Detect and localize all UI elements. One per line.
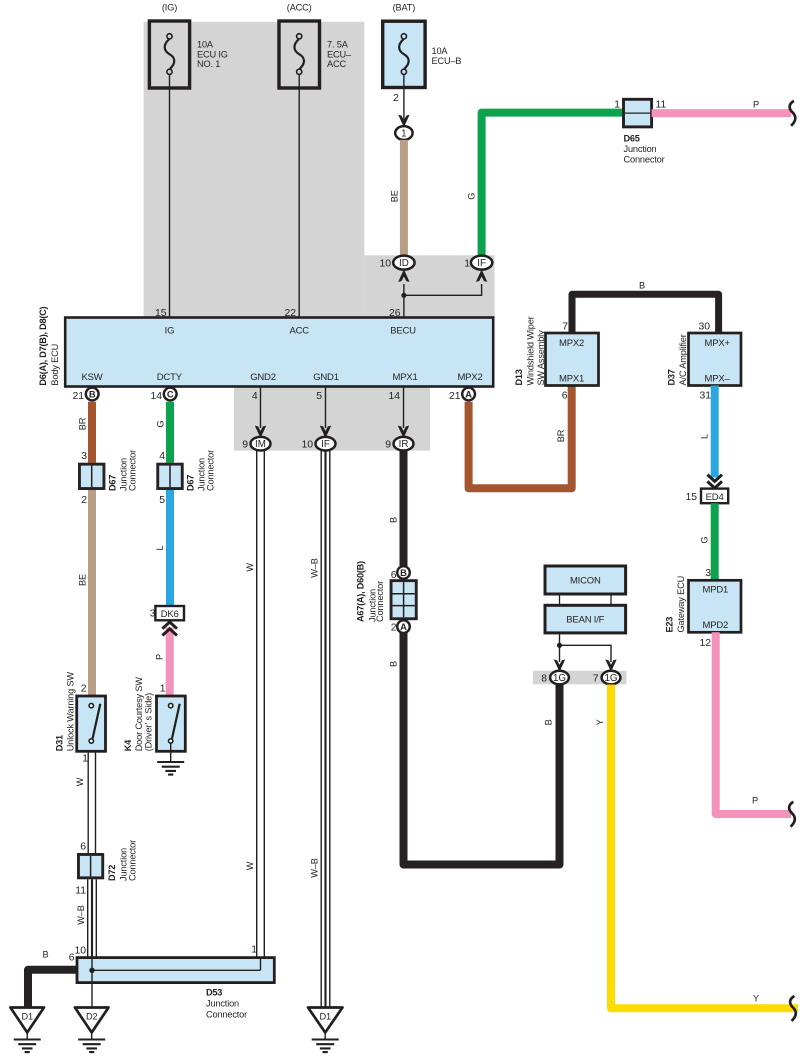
svg-text:1: 1 xyxy=(464,258,470,269)
svg-text:9: 9 xyxy=(242,439,248,450)
svg-text:W–B: W–B xyxy=(309,858,319,877)
GND1 pin 5 arrow into IF xyxy=(320,386,331,438)
svg-text:26: 26 xyxy=(389,308,401,319)
svg-text:DK6: DK6 xyxy=(161,609,179,620)
svg-text:10A: 10A xyxy=(197,40,214,50)
connector DK6 xyxy=(155,606,184,620)
svg-text:IR: IR xyxy=(399,439,409,450)
A/C amplifier D37 xyxy=(667,322,742,402)
svg-text:G: G xyxy=(156,421,166,428)
node IF oval with pin 1 xyxy=(464,256,492,270)
svg-text:2: 2 xyxy=(393,93,399,104)
ground D1 (right, GND1) xyxy=(308,1008,343,1053)
svg-text:(BAT): (BAT) xyxy=(393,3,416,13)
svg-text:D31: D31 xyxy=(55,735,65,751)
svg-text:BECU: BECU xyxy=(390,326,416,337)
node 1 oval xyxy=(395,126,412,140)
svg-text:1: 1 xyxy=(160,684,166,695)
wire B black from IR to junction connector A67 xyxy=(389,450,404,566)
svg-text:D67: D67 xyxy=(108,475,118,491)
svg-text:ECU–: ECU– xyxy=(327,50,352,60)
svg-text:12: 12 xyxy=(699,638,711,649)
svg-text:MPX2: MPX2 xyxy=(457,372,482,383)
svg-text:10: 10 xyxy=(301,439,313,450)
svg-text:Connector: Connector xyxy=(375,581,385,622)
svg-text:B: B xyxy=(400,568,407,578)
svg-text:15: 15 xyxy=(155,308,167,319)
svg-text:22: 22 xyxy=(284,308,296,319)
svg-text:D67: D67 xyxy=(186,475,196,491)
svg-text:6: 6 xyxy=(562,390,568,401)
pink wire P from D65 to right break xyxy=(652,100,796,126)
svg-text:P: P xyxy=(155,654,165,660)
wire W double-line D31 to D72 xyxy=(75,751,96,853)
wire B black D13 pin7 to D37 pin 30 xyxy=(572,281,719,334)
svg-text:BR: BR xyxy=(556,429,566,442)
wire BE beige D67 to D31 pin 2 xyxy=(78,490,93,696)
svg-text:IF: IF xyxy=(477,258,486,269)
svg-text:D1: D1 xyxy=(21,1012,32,1022)
node IR oval pin 9 xyxy=(385,437,413,451)
connector ED4 pin 15 xyxy=(685,489,728,504)
arrows into ID and IF, junction wiring to BECU pin 26 xyxy=(398,269,487,317)
svg-text:1G: 1G xyxy=(604,673,617,684)
svg-text:ECU–B: ECU–B xyxy=(432,56,462,66)
svg-text:15: 15 xyxy=(685,492,697,503)
svg-text:8: 8 xyxy=(541,673,547,684)
svg-text:MICON: MICON xyxy=(570,576,601,587)
svg-text:11: 11 xyxy=(75,885,86,896)
svg-text:IF: IF xyxy=(321,439,330,450)
node 1G oval pin 8 xyxy=(541,671,569,685)
fuse (BAT) 10A ECU-B xyxy=(383,3,462,88)
svg-text:1: 1 xyxy=(251,945,257,956)
svg-text:Connector: Connector xyxy=(128,840,138,881)
svg-text:B: B xyxy=(544,719,554,725)
junction connector D53 xyxy=(77,945,274,1020)
svg-text:7. 5A: 7. 5A xyxy=(327,40,349,50)
svg-text:31: 31 xyxy=(699,390,711,401)
svg-text:14: 14 xyxy=(150,391,162,402)
svg-text:KSW: KSW xyxy=(81,372,102,383)
svg-text:Windshield Wiper: Windshield Wiper xyxy=(526,316,536,385)
door courtesy SW K4 (driver's side) xyxy=(123,677,185,752)
svg-text:G: G xyxy=(467,193,477,200)
svg-text:10: 10 xyxy=(379,258,391,269)
svg-text:K4: K4 xyxy=(123,739,133,751)
pin 14 circled C below DCTY xyxy=(150,388,176,402)
svg-text:1G: 1G xyxy=(553,673,566,684)
svg-text:Y: Y xyxy=(595,719,605,725)
wire P pink DK6 to K4 pin 1 xyxy=(155,622,178,696)
svg-text:DCTY: DCTY xyxy=(157,372,183,383)
svg-text:ACC: ACC xyxy=(289,326,309,337)
svg-text:B: B xyxy=(89,389,96,399)
wire L blue D37 MPX- to ED4 xyxy=(700,386,723,489)
junction connector D67 (right) pins 4/5 xyxy=(156,450,215,506)
svg-text:D1: D1 xyxy=(319,1012,330,1022)
node ID oval with pin 10 xyxy=(379,256,414,270)
junction connector D72 pins 6/11 xyxy=(75,840,137,896)
svg-text:D13: D13 xyxy=(514,369,524,385)
svg-text:11: 11 xyxy=(656,100,667,111)
svg-text:Connector: Connector xyxy=(206,1009,247,1019)
BEAN I/F box xyxy=(545,605,626,633)
svg-text:W: W xyxy=(245,861,255,870)
svg-text:A/C Amplifier: A/C Amplifier xyxy=(678,334,688,385)
MICON box xyxy=(545,566,626,594)
svg-text:4: 4 xyxy=(252,391,258,402)
wiring BEAN I/F to 1G nodes with junction dot xyxy=(554,633,617,672)
node IM oval pin 9 xyxy=(242,437,270,451)
wire G green ED4 to E23 MPD1 xyxy=(700,503,715,580)
junction connector A67(A), D60(B) xyxy=(356,561,418,633)
svg-text:W: W xyxy=(245,563,255,572)
svg-text:P: P xyxy=(753,100,759,110)
svg-text:Junction: Junction xyxy=(624,144,657,154)
windshield wiper SW assembly D13 xyxy=(514,316,599,385)
fuse (ACC) 7.5A ECU-ACC xyxy=(279,3,352,89)
svg-text:3: 3 xyxy=(81,451,87,462)
svg-text:D53: D53 xyxy=(206,987,222,997)
svg-text:14: 14 xyxy=(388,391,400,402)
svg-text:21: 21 xyxy=(449,391,461,402)
wire W-B from IF node to ground D1 xyxy=(309,450,330,1007)
svg-text:9: 9 xyxy=(385,439,391,450)
grey harness area upper-left column xyxy=(144,22,365,318)
svg-text:10: 10 xyxy=(74,945,86,956)
svg-text:L: L xyxy=(700,434,710,439)
svg-text:D72: D72 xyxy=(107,865,117,881)
svg-text:SW Assembly: SW Assembly xyxy=(536,330,546,386)
grey strip behind 1G ovals xyxy=(533,671,626,685)
svg-text:IG: IG xyxy=(165,326,175,337)
grey harness area lower strip under BAT xyxy=(364,255,494,317)
ground D2 xyxy=(75,1008,109,1053)
svg-text:A67(A), D60(B): A67(A), D60(B) xyxy=(356,561,366,622)
svg-text:1: 1 xyxy=(401,129,406,140)
svg-text:E23: E23 xyxy=(665,617,675,633)
green wire G from IF node up and right to D65 xyxy=(467,113,624,256)
svg-text:10A: 10A xyxy=(432,46,449,56)
svg-text:(Driver’ s Side): (Driver’ s Side) xyxy=(144,693,154,751)
svg-text:P: P xyxy=(752,796,758,806)
links MICON to BEAN I/F xyxy=(560,594,612,605)
svg-text:MPX1: MPX1 xyxy=(392,372,417,383)
wire BR brown MPX2 to D13 MPX1 xyxy=(469,386,572,489)
svg-text:4: 4 xyxy=(159,451,165,462)
pin 21 circled A below MPX2 xyxy=(449,388,475,402)
wire B black D53 pin 6 to ground D1 xyxy=(28,949,77,1007)
svg-text:NO. 1: NO. 1 xyxy=(197,59,220,69)
svg-text:7: 7 xyxy=(562,322,568,333)
svg-text:Body ECU: Body ECU xyxy=(50,344,60,386)
svg-text:(IG): (IG) xyxy=(162,3,177,13)
wire B black from A67 down right and up to 1G xyxy=(389,633,560,865)
svg-text:Unlock Warning SW: Unlock Warning SW xyxy=(66,672,76,752)
junction connector D65 xyxy=(614,99,666,164)
GND2 pin 4 arrow into IM xyxy=(255,386,266,438)
wire ACC fuse to ECU pin 22 xyxy=(298,74,300,317)
node 1G oval pin 7 xyxy=(593,671,621,685)
svg-text:W–B: W–B xyxy=(76,905,86,924)
wire BE beige from node 1 to ID xyxy=(390,140,404,256)
svg-text:Connector: Connector xyxy=(624,155,665,165)
gateway ECU E23 xyxy=(665,576,742,649)
svg-text:Gateway ECU: Gateway ECU xyxy=(676,576,686,633)
svg-text:ID: ID xyxy=(399,258,409,269)
svg-text:2: 2 xyxy=(391,622,397,633)
svg-text:1: 1 xyxy=(82,754,88,765)
pin 21 circled B below KSW xyxy=(72,388,98,402)
svg-text:B: B xyxy=(389,661,399,667)
svg-text:C: C xyxy=(167,389,174,399)
svg-text:1: 1 xyxy=(614,100,620,111)
svg-text:G: G xyxy=(700,537,710,544)
fuse (IG) 10A ECU IG NO.1 xyxy=(149,3,227,89)
ground below K4 xyxy=(157,744,184,775)
svg-text:D37: D37 xyxy=(667,369,677,385)
wire W double-line from IM to D53 pin 1 xyxy=(245,450,264,957)
svg-text:30: 30 xyxy=(698,322,710,333)
wire Y yellow from 1G to bottom right break xyxy=(595,685,798,1021)
wire L blue D67 to DK6 xyxy=(150,490,170,620)
svg-text:IM: IM xyxy=(255,439,266,450)
svg-text:MPD2: MPD2 xyxy=(703,620,729,631)
svg-text:Door Courtesy SW: Door Courtesy SW xyxy=(134,677,144,752)
wire G green DCTY to D67 xyxy=(156,402,171,463)
MPX1 pin 14 arrow into IR xyxy=(398,386,409,438)
svg-text:BEAN I/F: BEAN I/F xyxy=(566,615,604,626)
grey strip below body ECU pins xyxy=(234,386,430,451)
unlock warning SW D31 xyxy=(55,672,106,765)
svg-text:MPX2: MPX2 xyxy=(559,338,584,349)
svg-text:BR: BR xyxy=(78,417,88,430)
ground D1 (left) xyxy=(10,1008,44,1053)
svg-text:ACC: ACC xyxy=(327,59,346,69)
svg-text:ECU IG: ECU IG xyxy=(197,50,228,60)
svg-text:B: B xyxy=(639,281,645,291)
svg-text:6: 6 xyxy=(80,842,86,853)
svg-text:A: A xyxy=(465,389,472,399)
svg-text:GND2: GND2 xyxy=(250,372,276,383)
svg-text:2: 2 xyxy=(81,495,87,506)
wire IG fuse to ECU pin 15 xyxy=(169,74,171,317)
node IF oval pin 10 xyxy=(301,437,335,451)
svg-text:3: 3 xyxy=(705,568,711,579)
svg-text:D65: D65 xyxy=(624,134,640,144)
svg-text:A: A xyxy=(400,622,407,632)
svg-text:MPD1: MPD1 xyxy=(703,585,729,596)
svg-text:D2: D2 xyxy=(86,1012,97,1022)
svg-text:L: L xyxy=(155,545,165,550)
svg-text:B: B xyxy=(43,949,49,959)
svg-text:BE: BE xyxy=(78,574,88,586)
svg-text:GND1: GND1 xyxy=(313,372,339,383)
svg-text:7: 7 xyxy=(593,673,599,684)
svg-text:5: 5 xyxy=(159,495,165,506)
Body ECU box D6(A), D7(B), D8(C) xyxy=(38,306,493,386)
svg-text:W: W xyxy=(75,777,85,786)
svg-text:2: 2 xyxy=(81,684,87,695)
svg-text:MPX1: MPX1 xyxy=(559,374,584,385)
svg-text:21: 21 xyxy=(72,391,84,402)
wire BAT fuse pin 2 to node 1 xyxy=(393,74,410,127)
wire P pink E23 MPD2 to right break xyxy=(716,632,795,826)
svg-text:Y: Y xyxy=(753,993,759,1003)
svg-text:B: B xyxy=(389,517,399,523)
svg-text:ED4: ED4 xyxy=(706,492,724,503)
svg-text:Connector: Connector xyxy=(128,450,138,491)
svg-text:6: 6 xyxy=(69,952,75,963)
junction connector D67 (left) pins 3/2 xyxy=(78,450,138,506)
svg-text:5: 5 xyxy=(316,391,322,402)
svg-text:Connector: Connector xyxy=(206,450,216,491)
svg-text:BE: BE xyxy=(390,190,400,202)
wire W-B D72 to D53 pin 10 xyxy=(74,879,96,957)
wire BR brown KSW to D67 xyxy=(78,402,93,463)
svg-text:W–B: W–B xyxy=(309,558,319,577)
svg-text:D6(A), D7(B), D8(C): D6(A), D7(B), D8(C) xyxy=(38,306,48,385)
wire from D53 junction dot down to ground D2 xyxy=(91,970,93,1007)
svg-text:MPX–: MPX– xyxy=(705,374,731,385)
svg-text:Junction: Junction xyxy=(206,998,239,1008)
svg-text:(ACC): (ACC) xyxy=(287,3,312,13)
svg-text:6: 6 xyxy=(391,570,397,581)
svg-text:MPX+: MPX+ xyxy=(705,338,731,349)
